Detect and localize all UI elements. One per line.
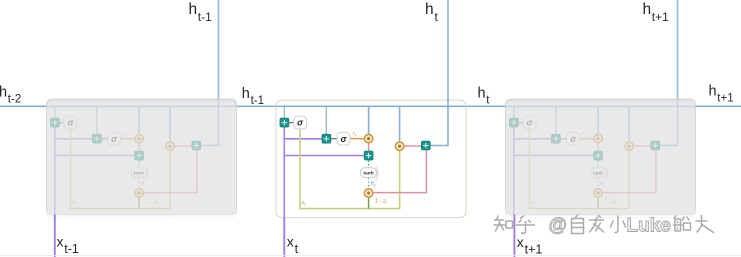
svg-text:Luke: Luke [627,216,671,237]
svg-text:t: t [295,242,299,256]
svg-text:t+1: t+1 [717,93,733,105]
svg-text:h: h [242,86,250,102]
bottom page divider [0,255,741,257]
wire h_t+1 output vertical [677,0,679,106]
glyph fa [590,216,604,233]
wire h_t-1 output vertical [218,0,220,106]
svg-text:x: x [287,234,294,250]
svg-text:x: x [57,234,64,250]
watermark zhihu [494,215,714,234]
svg-text:h: h [643,1,652,18]
svg-text:t-2: t-2 [8,94,21,106]
faded overlay box [47,99,237,215]
svg-text:h: h [709,84,717,100]
GRU cell t (middle, vivid) [276,99,466,218]
svg-text:t-1: t-1 [64,242,79,256]
wire x_t input vertical [283,217,285,257]
svg-text:t+1: t+1 [652,10,669,24]
svg-text:t+1: t+1 [525,243,543,257]
svg-text:h: h [0,85,7,101]
glyph zhi [494,216,513,231]
svg-text:x: x [517,234,524,250]
GRU cell t-1 (left, faded) [47,99,237,218]
glyph zi [572,215,584,234]
wire h stream horizontal [0,105,741,107]
svg-text:h: h [189,1,198,18]
svg-text:@: @ [549,215,568,236]
glyph hu [517,216,535,233]
svg-text:t-1: t-1 [251,95,264,107]
glyph chuan [674,216,691,231]
wire x_t-1 input vertical [54,215,56,257]
svg-text:h: h [478,86,486,102]
wire h_t output vertical [447,0,449,106]
GRU cell t+1 (right, faded) [506,99,696,218]
glyph chang [696,216,714,233]
svg-text:h: h [425,1,434,18]
glyph xiao [611,216,626,233]
svg-text:t-1: t-1 [198,10,212,24]
wire x_t+1 input vertical [513,215,515,257]
faded overlay box [506,99,696,215]
